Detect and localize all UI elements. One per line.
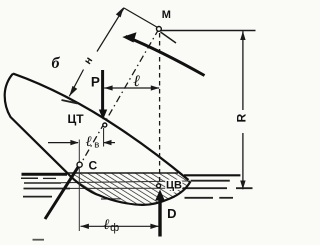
svg-text:ЦВ: ЦВ <box>166 180 182 192</box>
svg-text:ℓ: ℓ <box>103 217 109 233</box>
svg-text:ф: ф <box>110 222 119 234</box>
svg-text:Р: Р <box>91 75 100 90</box>
svg-text:D: D <box>167 206 176 221</box>
svg-text:М: М <box>162 9 171 21</box>
svg-text:С: С <box>88 158 97 172</box>
svg-text:н: н <box>82 55 95 67</box>
svg-text:б: б <box>52 55 61 72</box>
svg-text:ℓ: ℓ <box>133 73 140 90</box>
svg-text:в: в <box>94 140 99 151</box>
svg-text:ЦТ: ЦТ <box>67 112 84 126</box>
svg-text:ℓ: ℓ <box>85 134 91 150</box>
svg-text:R: R <box>235 113 249 122</box>
